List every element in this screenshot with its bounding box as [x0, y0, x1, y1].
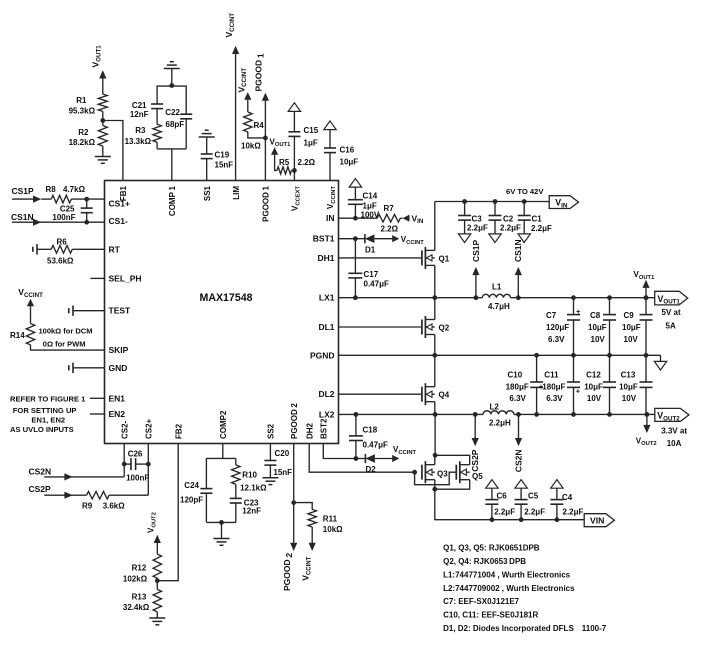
node C13 bottom [645, 412, 650, 417]
svg-text:DL2: DL2 [318, 389, 334, 399]
svg-text:GND: GND [109, 363, 128, 373]
resistor R11 [294, 503, 343, 544]
svg-text:R14: R14 [10, 331, 25, 340]
node C26 right [146, 462, 151, 467]
svg-text:Q2, Q4: RJK0653 DPB: Q2, Q4: RJK0653 DPB [443, 557, 526, 566]
svg-text:5A: 5A [666, 322, 676, 331]
svg-text:C2: C2 [503, 215, 514, 224]
svg-text:EN1, EN2: EN1, EN2 [31, 415, 65, 424]
node CS1+ / C25 junction [84, 197, 89, 202]
svg-text:100nF: 100nF [126, 474, 149, 483]
capacitor C12 [584, 355, 616, 414]
wire L1 to VOUT1 rail [511, 297, 655, 299]
resistor R14 [10, 324, 105, 351]
svg-text:C8: C8 [590, 311, 601, 320]
node C9 bottom [644, 353, 649, 358]
svg-text:18.2kΩ: 18.2kΩ [69, 138, 96, 147]
svg-text:PGOOD 2: PGOOD 2 [290, 403, 299, 439]
svg-text:1μF: 1μF [304, 139, 318, 148]
net VOUT1 (top left) [91, 45, 107, 94]
resistor R2 [69, 121, 108, 157]
ground (TEST) [69, 306, 105, 316]
inductor L2 [483, 402, 514, 427]
svg-text:PGND: PGND [310, 350, 335, 360]
node R4/PGOOD1 junction [263, 136, 268, 141]
svg-text:COMP2: COMP2 [219, 410, 228, 439]
svg-text:L1: L1 [492, 283, 502, 292]
svg-text:SKIP: SKIP [109, 345, 129, 355]
svg-text:120μF: 120μF [546, 323, 569, 332]
svg-text:R1: R1 [76, 96, 87, 105]
svg-text:2.2μF: 2.2μF [563, 508, 584, 517]
net CS1N input [11, 212, 105, 226]
svg-text:Q3: Q3 [437, 470, 448, 479]
svg-text:10μF: 10μF [622, 323, 641, 332]
node C8 top [607, 295, 612, 300]
svg-text:2.2μF: 2.2μF [494, 508, 515, 517]
net CS1P (sense) [471, 239, 481, 297]
ground (above COMP1 network) [164, 62, 180, 86]
node PGOOD2/R11 junction [291, 500, 296, 505]
svg-text:C7: EEF-SX0J121E7: C7: EEF-SX0J121E7 [443, 597, 520, 606]
svg-text:IN: IN [326, 213, 335, 223]
node VOUT1 flag junction [644, 295, 649, 300]
wire Q2 drain bus [434, 298, 436, 320]
svg-text:R12: R12 [132, 564, 147, 573]
svg-text:Q1: Q1 [439, 255, 450, 264]
svg-text:BST2: BST2 [320, 418, 329, 439]
capacitor C5 [515, 488, 546, 520]
svg-text:3.6kΩ: 3.6kΩ [103, 502, 126, 511]
svg-text:R11: R11 [323, 515, 338, 524]
svg-text:12nF: 12nF [130, 110, 149, 119]
svg-text:53.6kΩ: 53.6kΩ [47, 257, 74, 266]
svg-text:L2:7447709002 , Wurth Electron: L2:7447709002 , Wurth Electronics [443, 584, 575, 593]
net VOUT2 flag [655, 408, 689, 448]
svg-text:C10: C10 [508, 371, 523, 380]
svg-text:L1:744771004 , Wurth Electroni: L1:744771004 , Wurth Electronics [443, 570, 571, 579]
wire DL1 pin [339, 326, 422, 328]
ground (RT) [33, 244, 37, 254]
resistor R1 [69, 94, 108, 120]
svg-text:0Ω for PWM: 0Ω for PWM [43, 340, 86, 349]
svg-text:2.2μF: 2.2μF [524, 508, 545, 517]
svg-text:R7: R7 [384, 204, 395, 213]
net CS2P (sense) [470, 414, 480, 471]
svg-text:C11: C11 [544, 371, 559, 380]
resistor R4 [241, 100, 265, 151]
svg-text:D1: D1 [365, 245, 376, 254]
inductor L1 [482, 283, 510, 311]
net VOUT1 (R5 feed) [270, 137, 292, 170]
node C26 left [122, 462, 127, 467]
node CS1P tap [474, 295, 479, 300]
svg-text:C14: C14 [363, 192, 378, 201]
svg-text:R9: R9 [82, 502, 93, 511]
svg-text:68pF: 68pF [166, 120, 185, 129]
svg-text:LIM: LIM [232, 186, 241, 200]
svg-text:DL1: DL1 [318, 322, 334, 332]
svg-text:6V TO 42V: 6V TO 42V [506, 187, 544, 196]
node FB2 divider junction [155, 578, 160, 583]
net VCCINT (R4 pull-up) [236, 68, 251, 100]
ground (above C15) [288, 103, 300, 112]
svg-text:FOR SETTING UP: FOR SETTING UP [13, 406, 77, 415]
ground (below C2) [489, 234, 501, 243]
svg-text:R8: R8 [46, 185, 57, 194]
svg-text:C26: C26 [128, 450, 143, 459]
svg-text:C13: C13 [621, 371, 636, 380]
ground (below C3) [458, 234, 470, 243]
net CS1N (sense) [513, 239, 523, 297]
node CS2N tap [516, 412, 521, 417]
resistor R5 [277, 158, 316, 174]
net PGOOD1 (top) [254, 53, 266, 91]
wire SEL_PH stub [90, 277, 104, 279]
svg-text:C19: C19 [215, 151, 230, 160]
svg-text:120pF: 120pF [180, 496, 203, 505]
svg-text:CS1P: CS1P [12, 186, 35, 196]
wire divider to FB1 pin [103, 121, 123, 181]
diode D2 [356, 454, 393, 474]
svg-text:5V at: 5V at [662, 308, 681, 317]
svg-text:102kΩ: 102kΩ [123, 575, 148, 584]
svg-text:C9: C9 [624, 311, 635, 320]
svg-text:R13: R13 [132, 593, 147, 602]
svg-text:C3: C3 [472, 215, 483, 224]
svg-text:10V: 10V [591, 335, 606, 344]
svg-text:CS2+: CS2+ [145, 418, 154, 439]
svg-text:DH2: DH2 [305, 422, 314, 439]
svg-text:2.2Ω: 2.2Ω [298, 158, 316, 167]
svg-text:10A: 10A [667, 439, 682, 448]
svg-text:R2: R2 [78, 128, 89, 137]
svg-text:CS2N: CS2N [514, 450, 524, 473]
svg-text:C7: C7 [546, 311, 557, 320]
svg-text:C24: C24 [184, 481, 199, 490]
ground (above C5) [515, 480, 527, 489]
svg-text:C16: C16 [340, 146, 355, 155]
node source rail junction [432, 487, 437, 492]
svg-text:MAX17548: MAX17548 [200, 292, 253, 304]
wire EN1 stub [90, 397, 105, 399]
svg-text:C21: C21 [132, 101, 147, 110]
capacitor C26 [124, 450, 149, 483]
svg-text:10μF: 10μF [584, 383, 603, 392]
svg-text:10μF: 10μF [619, 383, 638, 392]
resistor R9 [82, 491, 148, 510]
node C5 bottom [519, 517, 524, 522]
wire CS2+ pin riser [147, 444, 149, 496]
resistor R3 [125, 109, 162, 149]
svg-text:Q2: Q2 [439, 324, 450, 333]
ground (above C6) [486, 480, 498, 489]
net VOUT2 (divider) [147, 512, 161, 554]
node C4 bottom [555, 517, 560, 522]
svg-text:D1, D2: Diodes Incorporated DF: D1, D2: Diodes Incorporated DFLS 1100-7 [443, 624, 607, 633]
node C17/LX1 junction [353, 295, 358, 300]
svg-text:AS UVLO INPUTS: AS UVLO INPUTS [10, 425, 74, 434]
svg-text:C15: C15 [304, 126, 319, 135]
svg-text:C4: C4 [562, 493, 573, 502]
node CS1N tap [516, 295, 521, 300]
svg-text:C6: C6 [497, 492, 508, 501]
svg-text:TEST: TEST [109, 306, 132, 316]
node C10 bottom [534, 412, 539, 417]
svg-text:2.2μH: 2.2μH [489, 418, 511, 427]
capacitor C11 (polarized) [542, 355, 580, 414]
wire Q3 drain stub v [434, 455, 436, 464]
capacitor C20 [264, 444, 292, 478]
wire PGND pin [339, 354, 435, 356]
net VCCINT (D1) [392, 235, 424, 246]
capacitor C13 [619, 355, 652, 414]
svg-text:C22: C22 [165, 108, 180, 117]
wire FB2 riser [157, 444, 178, 581]
svg-text:+: + [576, 387, 581, 396]
svg-text:2.2μF: 2.2μF [531, 224, 552, 233]
transistor Q5 [456, 461, 483, 483]
wire VCCEXT pin riser [293, 170, 295, 180]
wire Q5 gate route [415, 472, 457, 485]
svg-text:RT: RT [109, 244, 121, 254]
svg-text:C10, C11: EEF-SE0J181R: C10, C11: EEF-SE0J181R [443, 611, 538, 620]
node Q3 bus / LX2 [433, 412, 438, 417]
wire IN pin [339, 217, 356, 219]
svg-text:LX1: LX1 [319, 293, 335, 303]
svg-text:95.3kΩ: 95.3kΩ [69, 107, 96, 116]
resistor R12 [123, 554, 162, 589]
capacitor C7 (polarized) [546, 298, 581, 356]
capacitor C9 [622, 298, 653, 356]
svg-text:15nF: 15nF [273, 468, 292, 477]
svg-text:12.1kΩ: 12.1kΩ [240, 484, 267, 493]
transistor Q4 [422, 383, 450, 405]
wire COMP2 network top rail [206, 457, 235, 459]
svg-text:15nF: 15nF [215, 161, 234, 170]
node C6 bottom [490, 517, 495, 522]
node drain rail junction [433, 453, 438, 458]
svg-text:CS2P: CS2P [470, 449, 480, 472]
svg-text:R10: R10 [242, 471, 257, 480]
capacitor C18 [349, 414, 388, 458]
node IN/C14 junction [353, 216, 358, 221]
node COMP2 network bottom [219, 520, 224, 525]
ground (above C14) [349, 179, 361, 188]
ground (above C4) [551, 480, 563, 489]
svg-text:CS1N: CS1N [513, 239, 523, 262]
svg-text:PGOOD 1: PGOOD 1 [262, 185, 271, 221]
svg-text:2.2Ω: 2.2Ω [381, 225, 399, 234]
capacitor C14 [348, 187, 380, 220]
svg-text:COMP 1: COMP 1 [168, 185, 177, 216]
node C1 junction [522, 199, 527, 204]
svg-text:CS2-: CS2- [120, 420, 129, 439]
wire COMP2 stub [222, 444, 224, 459]
ground (above C16) [324, 121, 336, 130]
svg-text:L2: L2 [490, 402, 500, 411]
wire Q4 drain bus [434, 355, 436, 386]
svg-text:FB2: FB2 [174, 423, 183, 439]
svg-text:10μF: 10μF [588, 323, 607, 332]
transistor Q2 [422, 316, 450, 338]
wire Q3/Q5 source rail [435, 480, 470, 490]
svg-text:VIN: VIN [590, 516, 604, 526]
ground (below R13) [149, 618, 165, 625]
wire Q1 source to LX1 [434, 265, 436, 297]
svg-text:4.7kΩ: 4.7kΩ [63, 185, 86, 194]
svg-text:R3: R3 [135, 126, 146, 135]
svg-text:3.3V at: 3.3V at [661, 427, 687, 436]
ground (GND pin) [69, 363, 105, 373]
capacitor C25 [52, 199, 92, 222]
wire PGOOD1 riser [262, 93, 269, 181]
node PGND bus [432, 353, 437, 358]
net CS1P input [12, 186, 42, 203]
capacitor C3 [458, 202, 488, 234]
node C9 top [644, 295, 649, 300]
node C2 junction [493, 199, 498, 204]
svg-text:13.3kΩ: 13.3kΩ [125, 137, 152, 146]
ground (below R2) [95, 157, 111, 164]
svg-text:Q4: Q4 [439, 391, 450, 400]
svg-text:10V: 10V [622, 394, 637, 403]
capacitor C15 [288, 111, 318, 170]
net VOUT1 (arrow up) [634, 270, 656, 298]
resistor R7 [355, 204, 402, 234]
capacitor C10 (polarized) [506, 355, 544, 414]
svg-text:DH1: DH1 [317, 253, 334, 263]
wire CS2- pin riser [123, 444, 125, 477]
node C7 bottom [571, 353, 576, 358]
net VCCINT (R14) [18, 287, 43, 324]
wire BST1 pin [339, 238, 356, 240]
wire Q3/Q5 drain rail [435, 414, 470, 464]
svg-text:EN1: EN1 [109, 393, 126, 403]
node CS1- / C25 junction [84, 220, 89, 225]
wire Q1 drain to VIN rail [434, 202, 436, 251]
ground (rail end) [654, 355, 666, 370]
svg-text:SS2: SS2 [267, 423, 276, 439]
svg-text:C5: C5 [528, 492, 539, 501]
node C10 top [534, 353, 539, 358]
svg-text:BST1: BST1 [313, 234, 335, 244]
svg-text:Q5: Q5 [472, 472, 483, 481]
svg-text:R4: R4 [254, 121, 265, 130]
wire ground rail [435, 354, 661, 356]
ground (below COMP2 network) [214, 522, 230, 545]
wire VIN rail [435, 187, 550, 202]
diode D1 [355, 234, 393, 254]
op-amp U1 MAX17548 regulator IC [105, 181, 339, 444]
net CS2N input [29, 466, 125, 480]
capacitor C6 [485, 488, 515, 520]
resistor R10 [232, 458, 268, 498]
node C8 bottom [607, 353, 612, 358]
svg-text:100nF: 100nF [52, 213, 75, 222]
note parts list [443, 544, 607, 633]
transistor Q3 [422, 461, 448, 483]
svg-text:2.2μF: 2.2μF [467, 224, 488, 233]
capacitor C4 [550, 488, 583, 520]
ground (above C19) [199, 130, 215, 154]
wire COMP1 network bottom rail [157, 149, 186, 181]
svg-text:C18: C18 [363, 426, 378, 435]
capacitor C2 [489, 202, 522, 234]
node C11 bottom [571, 412, 576, 417]
svg-text:CS1P: CS1P [471, 239, 481, 262]
net VIN flag (bottom) [584, 514, 614, 527]
node C3 junction [462, 199, 467, 204]
wire EN2 stub [90, 413, 105, 415]
svg-text:10V: 10V [587, 394, 602, 403]
node C7 top [571, 295, 576, 300]
svg-text:R5: R5 [279, 158, 290, 167]
ground (below C1) [518, 234, 530, 243]
wire LX2 rail [339, 413, 655, 415]
net VIN flag (top) [549, 196, 578, 210]
wire VIN bottom line [435, 489, 584, 520]
note EN1/EN2 text [10, 394, 86, 434]
svg-text:LX2: LX2 [319, 409, 335, 419]
svg-text:FB1: FB1 [119, 185, 128, 201]
svg-text:180μF: 180μF [542, 383, 565, 392]
net VCCINT (D2) [392, 445, 416, 462]
capacitor C22 [165, 108, 192, 149]
ground (below C20) [262, 478, 278, 485]
node BST1 junction [353, 236, 358, 241]
wire COMP1 network top rail [157, 86, 186, 114]
wire Q4 source bus [434, 402, 436, 415]
svg-text:SEL_PH: SEL_PH [109, 273, 142, 283]
svg-text:SS1: SS1 [203, 185, 212, 201]
svg-text:C20: C20 [275, 449, 290, 458]
node Q1 source junction [432, 295, 437, 300]
capacitor C16 [324, 130, 358, 181]
net CS2N (sense) [514, 414, 524, 472]
wire BST2 pin [323, 444, 356, 459]
resistor R13 [123, 589, 162, 618]
wire LX1 rail [339, 297, 483, 299]
net PGOOD2 (arrow down) [282, 543, 297, 591]
svg-text:1μF: 1μF [363, 201, 377, 210]
capacitor C8 [588, 298, 616, 356]
capacitor C1 [518, 202, 552, 234]
capacitor C24 [180, 458, 212, 522]
net VOUT1 flag [655, 291, 688, 330]
node C18/LX2 junction [354, 412, 359, 417]
svg-text:4.7μH: 4.7μH [488, 302, 510, 311]
capacitor C19 [201, 151, 234, 181]
capacitor C17 [348, 239, 389, 298]
svg-text:Q1, Q3, Q5: RJK0651DPB: Q1, Q3, Q5: RJK0651DPB [443, 544, 540, 553]
wire COMP2 network bottom rail [206, 521, 235, 523]
svg-text:12nF: 12nF [242, 507, 261, 516]
wire DH2 pin [309, 444, 414, 473]
wire PGOOD2 riser [293, 444, 295, 544]
node COMP1 network top [169, 83, 174, 88]
net VCCINT (to LIM pin) [224, 13, 239, 181]
net VCCINT (R11, arrow down) [301, 543, 316, 581]
wire DL2 pin [339, 393, 422, 395]
svg-text:0.47μF: 0.47μF [364, 280, 389, 289]
node FB1 divider junction [100, 118, 105, 123]
svg-text:+: + [576, 307, 581, 316]
svg-text:C1: C1 [532, 215, 543, 224]
resistor R8 [41, 185, 104, 203]
svg-text:CS2N: CS2N [29, 466, 52, 476]
node DH2 gate junction [412, 470, 417, 475]
